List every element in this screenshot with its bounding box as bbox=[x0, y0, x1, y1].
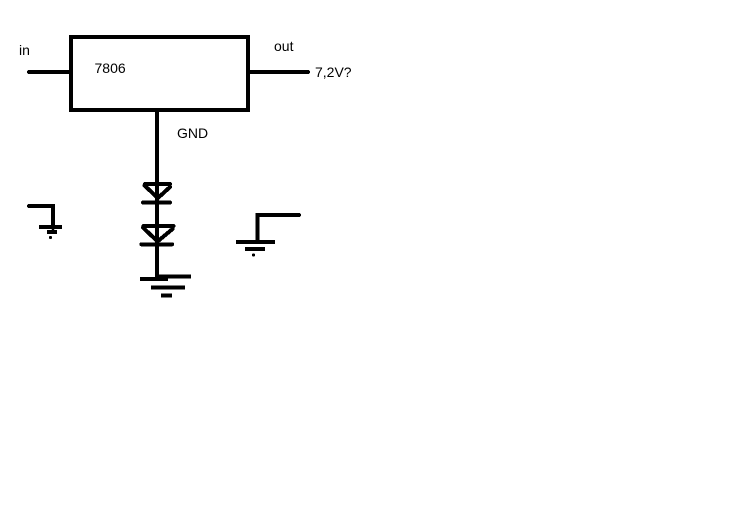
svg-text:7806: 7806 bbox=[95, 60, 126, 76]
ground symbol bottom bbox=[140, 277, 191, 296]
wire U1 output bbox=[249, 70, 308, 74]
ground symbol right bbox=[236, 242, 275, 257]
diode D2 bbox=[142, 226, 174, 244]
svg-text:in: in bbox=[19, 42, 30, 58]
regulator U1 7806 body bbox=[71, 37, 248, 110]
wire input to U1 bbox=[29, 70, 69, 74]
diode D1 bbox=[143, 184, 170, 203]
wire U1 GND down to ground bbox=[155, 109, 159, 278]
ground symbol left bbox=[39, 227, 62, 239]
wire right stub bbox=[258, 215, 300, 242]
wire left stub bbox=[29, 206, 53, 228]
svg-text:out: out bbox=[274, 38, 294, 54]
svg-text:7,2V?: 7,2V? bbox=[315, 64, 352, 80]
svg-text:GND: GND bbox=[177, 125, 208, 141]
